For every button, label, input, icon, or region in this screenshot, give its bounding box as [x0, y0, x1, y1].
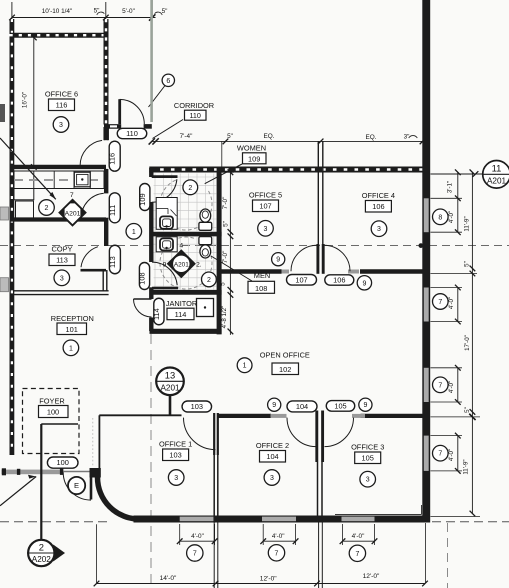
window bottom wall 1	[180, 517, 215, 522]
section marker 13/A201 with leader	[169, 395, 172, 416]
svg-text:106: 106	[372, 202, 384, 211]
kitchen door 111 swing arc	[81, 193, 104, 218]
women turning circle dashed	[160, 180, 212, 230]
svg-text:3: 3	[60, 275, 64, 282]
svg-text:12'-0": 12'-0"	[260, 576, 277, 583]
dimension line 7'-4" / EQ row	[151, 140, 424, 142]
reception tag circle 1	[63, 340, 79, 356]
svg-text:5": 5"	[162, 8, 168, 15]
copy door 113 swing arc	[81, 247, 98, 268]
svg-text:A201: A201	[65, 210, 81, 217]
svg-text:4'-0": 4'-0"	[272, 533, 285, 540]
svg-text:7: 7	[193, 551, 197, 558]
svg-text:108: 108	[255, 284, 267, 293]
svg-text:3: 3	[377, 226, 381, 233]
svg-text:113: 113	[108, 256, 117, 268]
women door leaf	[152, 175, 178, 178]
window bottom wall 3	[342, 517, 375, 522]
svg-text:109: 109	[248, 155, 260, 164]
offices1-3 top wall thin left segment	[99, 414, 181, 416]
svg-text:102: 102	[279, 365, 291, 374]
janitor door swing arc	[134, 299, 152, 317]
kitchen sink	[74, 172, 90, 187]
svg-text:FOYER: FOYER	[39, 397, 64, 406]
right inner dimension line segments	[457, 172, 459, 232]
women/men divider wall	[150, 232, 222, 237]
bottom main dimension line	[97, 583, 426, 585]
bottom exterior wall offices 1-3	[134, 516, 431, 523]
tag circle 9 right of 105	[359, 398, 372, 411]
corridor left wall segments x=106	[104, 125, 108, 140]
svg-text:105: 105	[362, 454, 374, 463]
svg-text:OFFICE 1: OFFICE 1	[159, 440, 192, 449]
office4 bottom wall right segment	[360, 269, 424, 274]
svg-text:3: 3	[174, 475, 178, 482]
door tag oval 105	[326, 401, 355, 412]
office1 door swing arc	[184, 418, 216, 450]
office1/office2 wall double line	[213, 413, 215, 455]
grey existing storefront line top	[150, 0, 153, 122]
women tag circle 2	[183, 180, 198, 195]
svg-text:5": 5"	[464, 407, 471, 413]
svg-text:10'-10 1/4": 10'-10 1/4"	[42, 8, 73, 15]
women toilet tank	[199, 222, 212, 230]
section marker 11/A201	[431, 173, 484, 175]
svg-text:5": 5"	[220, 280, 227, 286]
foyer right thin wall	[98, 415, 100, 468]
existing fixture mark left wall upper	[0, 104, 5, 122]
svg-text:OPEN OFFICE: OPEN OFFICE	[260, 351, 310, 360]
kitchen tag circle 2	[39, 200, 55, 216]
window right wall 1	[424, 198, 429, 232]
svg-text:14'-0": 14'-0"	[160, 575, 177, 582]
svg-text:103: 103	[191, 402, 203, 411]
svg-text:4: 4	[179, 243, 183, 250]
kitchen bottom wall	[10, 217, 106, 221]
men vanity sink	[156, 237, 177, 252]
office4 door swing arc	[324, 245, 350, 271]
svg-text:2.: 2.	[196, 262, 202, 269]
svg-text:7: 7	[438, 451, 442, 458]
svg-text:5'-0": 5'-0"	[122, 8, 135, 15]
office6 door leaf line	[103, 127, 105, 140]
bottom tag circle 7 a	[187, 545, 203, 561]
grid dashed line x=151 open office	[150, 334, 152, 584]
svg-text:1: 1	[69, 345, 73, 352]
office5/4 mullion wall double line	[317, 141, 319, 244]
svg-text:8: 8	[438, 214, 442, 221]
svg-text:OFFICE 6: OFFICE 6	[45, 90, 78, 99]
foyer dashed outline	[23, 389, 80, 454]
svg-text:4'-0": 4'-0"	[352, 533, 365, 540]
svg-text:11'-9": 11'-9"	[464, 216, 471, 231]
svg-text:A201: A201	[487, 177, 507, 186]
wall extension lines below bottom wall	[213, 523, 215, 588]
section diamond A201 men	[167, 250, 195, 278]
men tag circle 2	[202, 272, 217, 287]
section marker 2/A202 with cut line	[40, 424, 42, 540]
offices1-3 top wall segment office3 right	[361, 414, 423, 418]
restroom dimension string	[229, 172, 231, 335]
inner face line office3 bottom	[335, 513, 422, 515]
office2 tag circle 3	[264, 470, 280, 486]
office5 tag circle 3	[258, 221, 274, 237]
section diamond A201 kitchen	[60, 200, 86, 226]
bottom tag circle 7 b	[268, 545, 284, 561]
men toilet tank	[199, 237, 212, 245]
women toilet bowl	[200, 209, 211, 222]
office5 bottom wall	[222, 269, 282, 274]
svg-text:108: 108	[138, 272, 147, 284]
svg-text:4'-0": 4'-0"	[191, 533, 204, 540]
office5 door swing arc	[291, 245, 317, 271]
janitor mop sink	[197, 299, 214, 317]
svg-text:WOMEN: WOMEN	[237, 144, 266, 153]
door stop office4 grey	[348, 270, 359, 274]
svg-text:3: 3	[59, 122, 63, 129]
office3 door swing arc	[325, 418, 354, 447]
svg-text:106: 106	[333, 276, 345, 285]
door tag oval 109	[140, 184, 150, 211]
door tag oval 116	[109, 141, 120, 171]
men bottom wall	[150, 290, 222, 295]
open office tag circle 1	[237, 358, 252, 373]
copy tag circle 3	[54, 270, 70, 286]
existing fixture grey left mid	[0, 207, 9, 220]
copy door 113 leaf	[81, 269, 107, 272]
svg-text:3: 3	[264, 226, 268, 233]
svg-text:11: 11	[492, 163, 502, 174]
office6 right existing wall upper	[104, 19, 109, 125]
tag circle 9 near 106	[357, 276, 371, 290]
window bottom wall 2	[262, 517, 296, 522]
svg-text:EQ.: EQ.	[365, 134, 376, 141]
svg-text:11'-9": 11'-9"	[463, 459, 470, 474]
door tag oval 103	[182, 401, 212, 412]
svg-text:101: 101	[66, 325, 78, 334]
match line horizontal y=245	[0, 245, 509, 247]
restroom left wall segments x=151	[149, 168, 153, 177]
door E leaf	[90, 472, 93, 499]
door E header line	[63, 471, 89, 473]
svg-text:3: 3	[366, 477, 370, 484]
svg-text:1: 1	[132, 229, 136, 236]
svg-text:12'-0": 12'-0"	[363, 573, 380, 580]
door 110 leaf	[118, 99, 121, 124]
svg-text:7: 7	[70, 192, 74, 199]
junction dot right wall at matchline	[419, 243, 424, 248]
right tag circle 8	[433, 209, 449, 225]
svg-text:6: 6	[166, 78, 170, 85]
svg-text:104: 104	[296, 402, 308, 411]
svg-text:CORRIDOR: CORRIDOR	[174, 101, 214, 110]
copy bottom wall double line	[13, 290, 109, 292]
svg-text:7'-0": 7'-0"	[222, 251, 229, 264]
svg-text:1: 1	[243, 363, 247, 370]
office2/office3 wall double line	[315, 411, 318, 463]
corridor top wall with door opening	[104, 124, 121, 129]
office4 tag circle 3	[371, 221, 387, 237]
svg-text:COPY: COPY	[52, 245, 73, 254]
office6 tag circle 3	[53, 117, 69, 133]
svg-text:110: 110	[189, 111, 200, 120]
svg-text:103: 103	[169, 451, 181, 460]
storefront existing glazing band	[2, 470, 64, 475]
dotted line foyer to column	[92, 418, 94, 467]
svg-text:7: 7	[275, 550, 279, 557]
door tag oval 106	[325, 275, 354, 285]
centerline dashed bottom-right	[432, 521, 509, 523]
svg-text:2: 2	[39, 541, 44, 552]
svg-text:JANITOR: JANITOR	[166, 299, 197, 308]
bottom window dimension 1	[179, 524, 181, 545]
circle 6 leader	[149, 86, 166, 108]
svg-text:3'-1": 3'-1"	[447, 181, 454, 193]
kitchen counter band	[14, 171, 104, 189]
svg-text:5": 5"	[227, 133, 233, 140]
door tag oval 100	[47, 457, 78, 468]
demising wall top of women/offices 4-5 (dashed)	[149, 167, 424, 173]
svg-text:114: 114	[152, 308, 161, 320]
office2 door swing arc	[287, 418, 316, 447]
bottom window dimension 2	[262, 524, 264, 545]
door tag oval 104	[287, 401, 317, 412]
door stop office3 grey	[352, 414, 365, 418]
svg-text:113: 113	[56, 256, 68, 265]
svg-text:EQ.: EQ.	[263, 133, 274, 140]
window right wall 4	[424, 436, 429, 471]
tag circle 9 office5	[272, 253, 285, 266]
svg-text:7: 7	[438, 299, 442, 306]
svg-text:110: 110	[126, 129, 138, 138]
right extension lines	[431, 197, 463, 199]
storefront mullion at door	[60, 468, 63, 475]
restroom tile grid	[154, 174, 217, 291]
door tag oval 110	[117, 128, 147, 138]
extension line x=222 women wall	[221, 141, 223, 168]
svg-text:105: 105	[334, 402, 346, 411]
svg-text:104: 104	[266, 452, 278, 461]
door E tag circle	[68, 477, 85, 494]
top exterior existing wall office6	[10, 33, 108, 38]
svg-text:13: 13	[165, 370, 175, 381]
men door swing arc	[152, 262, 177, 285]
kitchen top wall	[10, 165, 106, 169]
centerline dashed bottom-left y=522	[0, 521, 108, 523]
svg-text:114: 114	[175, 310, 187, 319]
door stop office5 grey	[282, 270, 290, 274]
door 110 swing arc	[120, 99, 145, 124]
men door leaf	[152, 287, 178, 290]
svg-text:9: 9	[363, 402, 367, 409]
women vanity sink	[156, 198, 177, 230]
restroom right wall x=219	[217, 168, 222, 334]
right tag circle 7 b	[433, 377, 449, 393]
storefront mullion cap left	[2, 468, 6, 475]
left exterior existing wall (dashed)	[9, 19, 14, 455]
door tag oval 108	[139, 263, 149, 290]
men turning circle dashed	[160, 237, 212, 289]
svg-text:7: 7	[438, 382, 442, 389]
svg-text:4'-0": 4'-0"	[448, 449, 455, 461]
svg-text:4'-8 1/2": 4'-8 1/2"	[221, 306, 228, 329]
offices1-3 top wall segment office2	[218, 414, 271, 418]
svg-text:OFFICE 2: OFFICE 2	[256, 441, 289, 450]
door tag oval 114	[154, 298, 164, 325]
window right wall 3	[424, 368, 429, 402]
door tag oval 107	[287, 275, 317, 286]
svg-text:116: 116	[56, 101, 68, 110]
svg-text:2: 2	[45, 205, 49, 212]
kitchen refrigerator	[16, 201, 34, 220]
svg-text:3": 3"	[404, 134, 410, 141]
svg-text:16'-0": 16'-0"	[22, 92, 29, 108]
bottom window dimension 3	[342, 524, 344, 545]
tag circle 6 top	[162, 74, 174, 86]
svg-text:107: 107	[259, 202, 271, 211]
svg-text:107: 107	[295, 275, 307, 284]
entry column black	[90, 468, 101, 478]
svg-text:116: 116	[108, 153, 117, 165]
svg-text:A202: A202	[32, 555, 52, 564]
right tag circle 7 a	[433, 294, 449, 310]
svg-text:3: 3	[270, 475, 274, 482]
door tag oval 113	[109, 245, 120, 274]
svg-text:A201: A201	[174, 262, 189, 269]
svg-text:5": 5"	[464, 261, 471, 267]
svg-text:RECEPTION: RECEPTION	[51, 314, 94, 323]
office6 door swing arc	[80, 140, 102, 165]
svg-text:4'-0": 4'-0"	[448, 211, 455, 223]
svg-text:9: 9	[362, 280, 366, 287]
svg-text:OFFICE 5: OFFICE 5	[249, 191, 282, 200]
svg-text:109: 109	[138, 193, 147, 205]
janitor bottom wall	[150, 329, 222, 334]
women leader line	[205, 164, 242, 184]
svg-text:MEN: MEN	[254, 271, 270, 280]
svg-text:E: E	[74, 481, 79, 490]
grid dashed vertical x=447 bottom right	[447, 523, 449, 588]
corridor tag circle 1	[126, 224, 142, 240]
svg-text:7'-0": 7'-0"	[222, 197, 229, 210]
svg-text:9: 9	[276, 257, 280, 264]
door stop office2 grey	[271, 414, 287, 418]
svg-text:9: 9	[163, 261, 167, 268]
corridor leader line	[153, 120, 184, 139]
svg-text:7'-4": 7'-4"	[180, 133, 193, 140]
door tag oval 111	[109, 193, 120, 223]
svg-text:OFFICE 3: OFFICE 3	[351, 443, 384, 452]
svg-text:2: 2	[207, 277, 211, 284]
svg-text:A201: A201	[160, 384, 180, 393]
svg-text:100: 100	[57, 458, 69, 467]
svg-text:4'-0": 4'-0"	[448, 297, 455, 309]
svg-text:111: 111	[108, 205, 117, 216]
svg-text:17'-0": 17'-0"	[464, 335, 471, 351]
svg-text:2: 2	[188, 185, 192, 192]
curved wall at entry	[97, 478, 139, 520]
svg-text:9: 9	[272, 402, 276, 409]
right tag circle 7 c	[433, 445, 449, 461]
existing fixture grey left lower	[0, 278, 9, 292]
storefront mullion mid	[17, 469, 20, 475]
kitchen counter left leg	[14, 189, 34, 200]
svg-text:5": 5"	[94, 8, 100, 15]
svg-text:100: 100	[47, 408, 59, 417]
svg-text:4'-0": 4'-0"	[448, 381, 455, 393]
top dimension line	[12, 17, 156, 19]
window right wall 2	[424, 288, 429, 322]
svg-text:OFFICE 4: OFFICE 4	[362, 191, 395, 200]
svg-text:7: 7	[355, 551, 359, 558]
bottom tag circle 7 c	[349, 545, 365, 561]
right outer dimension line	[471, 172, 473, 513]
door E swing arc	[63, 472, 91, 500]
dimension 16'-0" office6	[33, 38, 35, 168]
men toilet bowl	[200, 245, 211, 258]
women door swing arc	[152, 179, 177, 202]
tag circle 9 left of 104	[268, 398, 281, 411]
kitchen counter divisions	[33, 171, 35, 189]
kitchen upper cabinet dashed line	[14, 179, 103, 181]
office1 tag circle 3	[168, 470, 184, 486]
leader arrow top left to kitchen	[0, 138, 56, 199]
leader arrow bottom left to storefront	[0, 477, 36, 506]
svg-text:5": 5"	[222, 221, 229, 227]
right exterior wall full height	[422, 0, 430, 523]
men leader line	[211, 256, 252, 281]
office3 tag circle 3	[360, 471, 376, 487]
